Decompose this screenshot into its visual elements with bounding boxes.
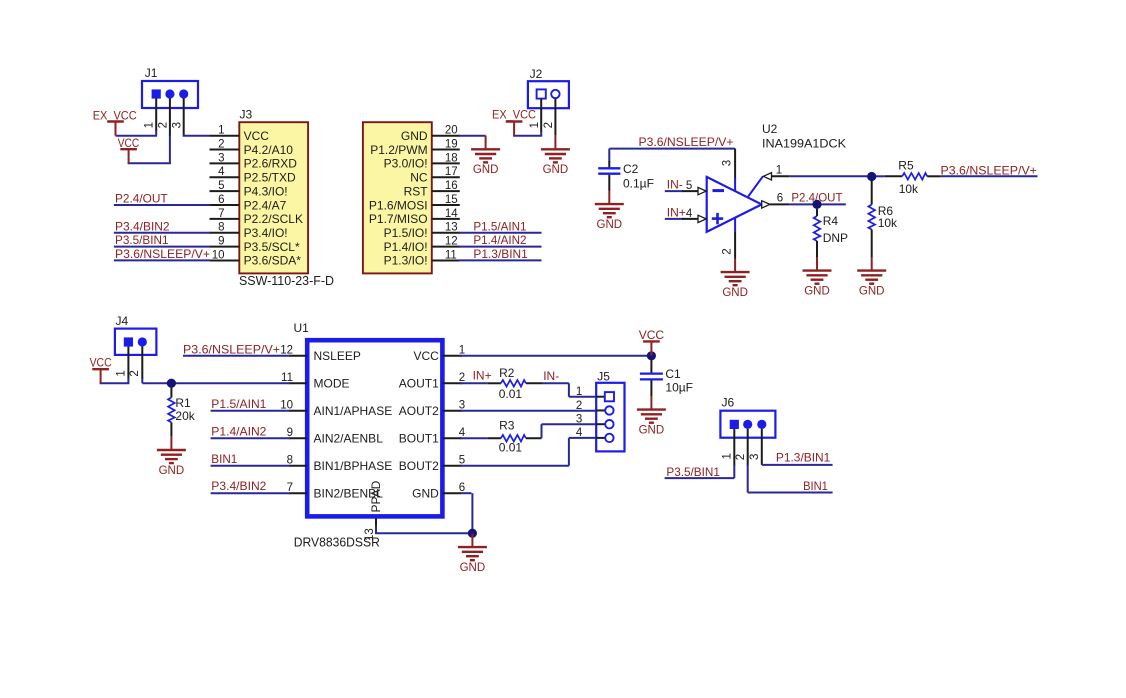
svg-text:C2: C2 [623, 162, 639, 176]
svg-text:NC: NC [410, 171, 428, 185]
svg-text:P4.3/IO!: P4.3/IO! [244, 184, 288, 198]
svg-text:P1.3/BIN1: P1.3/BIN1 [776, 451, 831, 465]
svg-text:P3.4/BIN2: P3.4/BIN2 [211, 479, 266, 493]
svg-text:1: 1 [576, 386, 582, 398]
svg-text:VCC: VCC [639, 328, 665, 342]
svg-text:P3.4/IO!: P3.4/IO! [244, 226, 288, 240]
svg-text:0.1µF: 0.1µF [623, 177, 654, 191]
svg-text:BIN1: BIN1 [211, 452, 237, 466]
svg-text:P2.2/SCLK: P2.2/SCLK [244, 212, 303, 226]
svg-text:10µF: 10µF [665, 381, 693, 395]
svg-text:R3: R3 [499, 419, 515, 433]
svg-text:VCC: VCC [90, 356, 112, 370]
svg-text:R4: R4 [823, 214, 839, 228]
svg-text:J1: J1 [145, 66, 158, 80]
svg-text:P1.5/IO!: P1.5/IO! [384, 226, 428, 240]
svg-text:BIN1/BPHASE: BIN1/BPHASE [314, 459, 393, 473]
svg-text:IN+: IN+ [667, 206, 686, 220]
svg-text:17: 17 [445, 166, 458, 178]
svg-text:11: 11 [445, 249, 457, 261]
svg-text:P1.5/AIN1: P1.5/AIN1 [473, 219, 526, 233]
svg-text:VCC: VCC [413, 349, 439, 363]
svg-text:GND: GND [412, 487, 439, 501]
svg-text:12: 12 [280, 344, 293, 356]
svg-text:5: 5 [686, 180, 692, 192]
svg-text:10k: 10k [878, 216, 898, 230]
svg-text:13: 13 [445, 222, 458, 234]
svg-text:P1.5/AIN1: P1.5/AIN1 [211, 397, 266, 411]
svg-text:2: 2 [459, 372, 465, 384]
svg-text:J2: J2 [530, 67, 543, 81]
svg-text:AOUT2: AOUT2 [399, 404, 439, 418]
svg-text:P1.6/MOSI: P1.6/MOSI [369, 198, 428, 212]
svg-text:P1.3/BIN1: P1.3/BIN1 [473, 247, 528, 261]
svg-text:P2.4/A7: P2.4/A7 [244, 198, 287, 212]
svg-text:16: 16 [445, 180, 458, 192]
svg-text:MODE: MODE [314, 377, 350, 391]
svg-text:GND: GND [460, 562, 486, 574]
svg-text:P3.6/NSLEEP/V+: P3.6/NSLEEP/V+ [115, 247, 210, 261]
svg-text:4: 4 [459, 427, 466, 439]
svg-text:1: 1 [115, 370, 127, 376]
svg-text:7: 7 [218, 208, 224, 220]
svg-text:14: 14 [445, 208, 458, 220]
svg-text:2: 2 [735, 454, 747, 460]
svg-text:1: 1 [776, 165, 782, 177]
svg-text:R5: R5 [898, 159, 914, 173]
svg-text:10k: 10k [899, 182, 919, 196]
svg-text:U1: U1 [294, 321, 310, 335]
svg-text:P3.6/SDA*: P3.6/SDA* [244, 254, 302, 268]
svg-text:AIN1/APHASE: AIN1/APHASE [314, 404, 393, 418]
svg-text:P2.5/TXD: P2.5/TXD [244, 171, 296, 185]
svg-text:1: 1 [218, 125, 224, 137]
svg-text:1: 1 [721, 453, 733, 459]
svg-text:U2: U2 [762, 122, 778, 136]
svg-text:7: 7 [287, 482, 293, 494]
svg-text:BOUT2: BOUT2 [399, 459, 439, 473]
svg-text:P3.6/NSLEEP/V+: P3.6/NSLEEP/V+ [183, 342, 280, 356]
svg-text:15: 15 [445, 194, 458, 206]
svg-text:VCC: VCC [244, 129, 270, 143]
svg-text:6: 6 [777, 193, 783, 205]
svg-text:SSW-110-23-F-D: SSW-110-23-F-D [239, 273, 334, 288]
svg-text:PPAD: PPAD [369, 480, 383, 512]
svg-text:GND: GND [639, 424, 665, 436]
svg-text:GND: GND [401, 129, 428, 143]
svg-text:P2.6/RXD: P2.6/RXD [244, 157, 298, 171]
svg-text:AIN2/AENBL: AIN2/AENBL [314, 432, 384, 446]
svg-text:AOUT1: AOUT1 [399, 377, 439, 391]
svg-text:GND: GND [859, 285, 885, 297]
svg-text:1: 1 [144, 122, 156, 128]
svg-text:P1.4/AIN2: P1.4/AIN2 [473, 233, 526, 247]
svg-text:9: 9 [287, 427, 293, 439]
svg-text:J5: J5 [597, 370, 610, 384]
svg-text:4: 4 [686, 208, 693, 220]
svg-text:DNP: DNP [823, 231, 848, 245]
svg-text:20k: 20k [175, 409, 195, 423]
svg-text:4: 4 [218, 166, 225, 178]
svg-text:INA199A1DCK: INA199A1DCK [762, 137, 846, 151]
svg-text:6: 6 [459, 482, 465, 494]
svg-text:9: 9 [218, 235, 224, 247]
svg-text:0.01: 0.01 [499, 387, 523, 401]
svg-text:2: 2 [721, 248, 733, 254]
svg-text:P1.4/IO!: P1.4/IO! [384, 240, 428, 254]
svg-text:5: 5 [459, 454, 465, 466]
svg-text:3: 3 [171, 122, 183, 128]
svg-text:GND: GND [473, 164, 499, 176]
svg-text:20: 20 [445, 125, 458, 137]
svg-text:19: 19 [445, 138, 458, 150]
svg-text:P3.4/BIN2: P3.4/BIN2 [115, 219, 170, 233]
svg-text:EX_VCC: EX_VCC [93, 108, 137, 122]
svg-text:IN-: IN- [543, 369, 559, 383]
svg-text:P3.5/BIN1: P3.5/BIN1 [115, 233, 169, 247]
svg-text:P1.3/IO!: P1.3/IO! [384, 254, 428, 268]
svg-text:2: 2 [218, 138, 224, 150]
svg-text:GND: GND [543, 164, 569, 176]
svg-text:3: 3 [218, 152, 224, 164]
svg-text:1: 1 [529, 122, 541, 128]
svg-text:1: 1 [459, 344, 465, 356]
svg-text:P3.5/SCL*: P3.5/SCL* [244, 240, 300, 254]
svg-text:C1: C1 [665, 367, 681, 381]
svg-text:3: 3 [721, 160, 733, 166]
svg-text:8: 8 [287, 454, 293, 466]
svg-text:18: 18 [445, 152, 458, 164]
svg-text:P1.4/AIN2: P1.4/AIN2 [211, 424, 266, 438]
svg-text:6: 6 [218, 194, 224, 206]
svg-text:R2: R2 [499, 366, 515, 380]
svg-text:10: 10 [212, 249, 225, 261]
svg-text:12: 12 [445, 235, 458, 247]
svg-text:NSLEEP: NSLEEP [314, 349, 361, 363]
svg-text:2: 2 [129, 370, 141, 376]
svg-text:8: 8 [218, 222, 224, 234]
svg-text:P3.6/NSLEEP/V+: P3.6/NSLEEP/V+ [941, 164, 1037, 178]
svg-text:P1.7/MISO: P1.7/MISO [369, 212, 428, 226]
svg-text:5: 5 [218, 180, 224, 192]
svg-text:GND: GND [597, 219, 623, 231]
svg-text:0.01: 0.01 [499, 440, 523, 454]
svg-text:3: 3 [459, 399, 465, 411]
svg-text:10: 10 [280, 399, 293, 411]
svg-text:P3.5/BIN1: P3.5/BIN1 [666, 465, 720, 479]
svg-text:P3.6/NSLEEP/V+: P3.6/NSLEEP/V+ [639, 135, 734, 149]
svg-text:11: 11 [281, 372, 293, 384]
svg-text:P1.2/PWM: P1.2/PWM [370, 143, 427, 157]
svg-text:2: 2 [543, 122, 555, 128]
svg-text:3: 3 [749, 454, 761, 460]
svg-text:P3.0/IO!: P3.0/IO! [384, 157, 428, 171]
svg-text:2: 2 [576, 400, 582, 412]
svg-text:2: 2 [158, 122, 170, 128]
svg-text:IN+: IN+ [473, 369, 492, 383]
svg-text:J6: J6 [722, 396, 735, 410]
svg-text:RST: RST [404, 184, 429, 198]
svg-text:4: 4 [576, 427, 583, 439]
svg-text:IN-: IN- [667, 178, 683, 192]
svg-text:P2.4/OUT: P2.4/OUT [115, 192, 168, 206]
svg-text:3: 3 [576, 414, 582, 426]
svg-text:J4: J4 [116, 314, 129, 328]
svg-text:GND: GND [722, 287, 748, 299]
svg-text:EX_VCC: EX_VCC [492, 108, 536, 122]
svg-text:GND: GND [159, 465, 185, 477]
svg-text:BOUT1: BOUT1 [399, 432, 439, 446]
svg-text:BIN1: BIN1 [803, 479, 828, 493]
svg-text:J3: J3 [240, 108, 253, 122]
svg-text:DRV8836DSSR: DRV8836DSSR [294, 535, 380, 550]
svg-text:P4.2/A10: P4.2/A10 [244, 143, 294, 157]
svg-text:GND: GND [804, 285, 830, 297]
svg-text:VCC: VCC [118, 136, 140, 150]
